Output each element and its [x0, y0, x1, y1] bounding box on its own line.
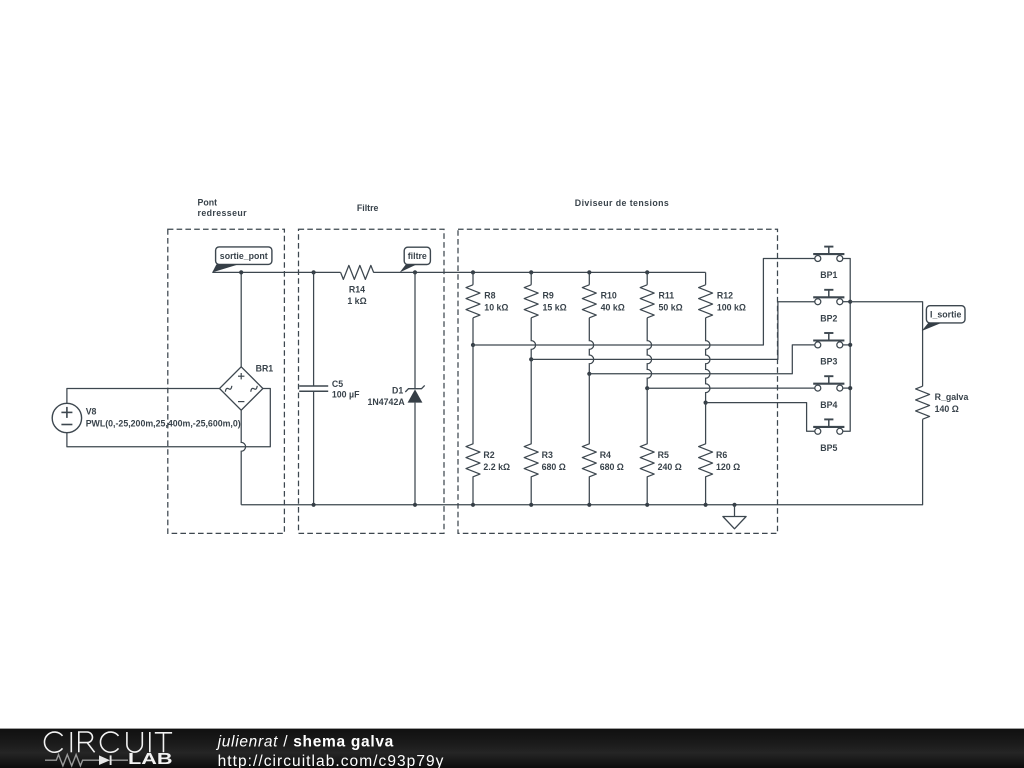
wire R8 top lead — [472, 272, 474, 284]
svg-text:julienrat / shema galva: julienrat / shema galva — [216, 733, 394, 750]
svg-text:R8: R8 — [484, 291, 495, 301]
node bottom rail at col5 — [704, 503, 708, 507]
svg-text:100 µF: 100 µF — [332, 390, 360, 400]
node bottom rail at C5 — [312, 503, 316, 507]
wire R8 bottom lead — [472, 318, 474, 345]
voltage source V8 — [52, 403, 81, 432]
flag I_sortie — [922, 306, 965, 331]
svg-text:240 Ω: 240 Ω — [658, 462, 682, 472]
node bottom rail at col1 — [471, 503, 475, 507]
wire BP2 right stub — [843, 301, 850, 303]
wire R10 top lead — [588, 272, 590, 284]
node divider tap 3 — [587, 372, 591, 376]
label R2 value — [483, 450, 510, 472]
node divider tap 2 — [529, 357, 533, 361]
flag filtre — [400, 247, 431, 272]
wire R14 to divider top rail — [374, 271, 706, 273]
svg-text:R2: R2 — [483, 450, 494, 460]
node top rail col 1 — [471, 270, 475, 274]
svg-text:C5: C5 — [332, 379, 343, 389]
svg-text:120 Ω: 120 Ω — [716, 462, 740, 472]
label V8 value — [86, 407, 241, 429]
wire BP4 right stub — [843, 387, 850, 389]
resistor R14 — [341, 265, 374, 279]
resistor R9 — [524, 285, 538, 318]
resistor R4 — [582, 374, 596, 505]
pushbutton BP1 — [813, 247, 844, 262]
wire R11 bottom lead — [647, 318, 651, 388]
wire bus to R_galva (I_sortie net) — [850, 302, 922, 387]
svg-text:R6: R6 — [716, 450, 727, 460]
node bus at BP4 — [848, 386, 852, 390]
pushbutton BP2 — [813, 290, 844, 305]
svg-text:10 kΩ: 10 kΩ — [484, 302, 508, 312]
diode D1 (zener) — [405, 272, 424, 504]
svg-text:redresseur: redresseur — [198, 208, 248, 218]
node at C5 top — [312, 270, 316, 274]
wire tap3 to BP3 — [589, 345, 815, 374]
svg-text:BP2: BP2 — [820, 313, 837, 323]
footer bar — [0, 729, 1024, 768]
svg-text:BR1: BR1 — [256, 364, 274, 374]
wire BR1 bottom corner to bottom rail (hop over V8 return) — [241, 410, 245, 505]
pushbutton BP3 — [813, 333, 844, 348]
resistor R12 — [699, 285, 713, 318]
node bottom rail at D1 — [413, 503, 417, 507]
node bus at BP3 — [848, 343, 852, 347]
pushbutton BP4 — [813, 376, 844, 391]
wire bottom rail (ground net) — [241, 419, 922, 505]
wire tap5 to BP5 — [706, 403, 815, 432]
svg-text:100 kΩ: 100 kΩ — [717, 302, 746, 312]
svg-text:50 kΩ: 50 kΩ — [659, 302, 683, 312]
wire tap2 to BP2 — [531, 302, 815, 360]
dashed box Filtre — [299, 229, 445, 533]
node bus at BP2 — [848, 300, 852, 304]
dashed box Pont redresseur — [168, 229, 285, 533]
label R14 value — [347, 285, 366, 306]
svg-text:BP4: BP4 — [820, 400, 837, 410]
svg-text:R12: R12 — [717, 291, 733, 301]
wire V8 bottom — [67, 389, 270, 447]
node bottom rail at col2 — [529, 503, 533, 507]
node top rail col 3 — [587, 270, 591, 274]
node bottom rail at col3 — [587, 503, 591, 507]
node divider tap 1 — [471, 343, 475, 347]
wire button output bus — [843, 259, 850, 432]
node divider tap 4 — [645, 386, 649, 390]
svg-text:BP5: BP5 — [820, 443, 837, 453]
svg-text:sortie_pont: sortie_pont — [220, 251, 268, 261]
label R3 value — [542, 450, 566, 472]
svg-text:Pont: Pont — [198, 197, 218, 207]
label R8 value — [484, 291, 508, 313]
svg-text:Filtre: Filtre — [357, 203, 379, 213]
svg-text:filtre: filtre — [408, 251, 427, 261]
pushbutton BP5 — [813, 419, 844, 434]
svg-text:PWL(0,-25,200m,25,400m,-25,600: PWL(0,-25,200m,25,400m,-25,600m,0) — [86, 419, 241, 429]
svg-text:R3: R3 — [542, 450, 553, 460]
wire R12 top lead — [705, 272, 707, 284]
dashed box Diviseur de tensions — [458, 229, 778, 533]
svg-text:Diviseur de tensions: Diviseur de tensions — [575, 198, 669, 208]
svg-text:15 kΩ: 15 kΩ — [543, 302, 567, 312]
svg-text:R_galva: R_galva — [935, 392, 969, 402]
svg-text:D1: D1 — [392, 386, 403, 396]
resistor R6 — [699, 403, 713, 505]
wire R9 bottom lead — [531, 318, 535, 360]
svg-text:http://circuitlab.com/c93p79y: http://circuitlab.com/c93p79y — [218, 753, 445, 768]
label C5 value — [332, 379, 360, 399]
wire R9 top lead — [530, 272, 532, 284]
svg-text:R10: R10 — [601, 291, 617, 301]
label R6 value — [716, 450, 740, 472]
svg-text:R14: R14 — [349, 285, 365, 295]
ground — [723, 503, 746, 529]
svg-text:R5: R5 — [658, 450, 669, 460]
svg-text:140 Ω: 140 Ω — [935, 404, 959, 414]
resistor R11 — [640, 285, 654, 318]
node top rail col 2 — [529, 270, 533, 274]
wire R10 bottom lead — [589, 318, 593, 374]
svg-text:1N4742A: 1N4742A — [368, 397, 406, 407]
wire BP3 right stub — [843, 344, 850, 346]
bridge rectifier BR1 — [220, 367, 263, 410]
wire R12 bottom lead — [706, 318, 710, 403]
label R_galva value — [935, 392, 969, 414]
resistor R5 — [640, 388, 654, 505]
svg-text:R9: R9 — [543, 291, 554, 301]
svg-text:680 Ω: 680 Ω — [600, 462, 624, 472]
resistor R2 — [466, 345, 480, 505]
wire tap1 to BP1 — [473, 259, 815, 346]
label R11 value — [659, 291, 683, 313]
wire V8 top to BR1 left — [67, 389, 220, 404]
node filtre at D1 top — [413, 270, 417, 274]
resistor R_galva — [916, 386, 930, 419]
svg-text:680 Ω: 680 Ω — [542, 462, 566, 472]
node sortie_pont at BR1 — [239, 270, 243, 274]
svg-text:R4: R4 — [600, 450, 611, 460]
label Pont redresseur — [198, 197, 248, 218]
label R4 value — [600, 450, 624, 472]
wire BR1 top corner to rail — [240, 272, 242, 366]
wire top rail (sortie_pont net) — [212, 271, 340, 273]
label R9 value — [543, 291, 567, 313]
label D1 value — [368, 386, 406, 407]
svg-text:R11: R11 — [659, 291, 675, 301]
svg-text:LAB: LAB — [128, 751, 173, 768]
flag sortie_pont — [212, 247, 272, 273]
svg-text:V8: V8 — [86, 407, 97, 417]
svg-text:1 kΩ: 1 kΩ — [347, 296, 366, 306]
svg-text:BP1: BP1 — [820, 270, 837, 280]
label R10 value — [601, 291, 625, 313]
svg-text:2.2 kΩ: 2.2 kΩ — [483, 462, 510, 472]
node divider tap 5 — [704, 401, 708, 405]
label R12 value — [717, 291, 746, 313]
node top rail col 4 — [645, 270, 649, 274]
CircuitLab logo — [44, 732, 172, 752]
svg-text:BP3: BP3 — [820, 357, 837, 367]
svg-text:I_sortie: I_sortie — [930, 309, 961, 319]
wire tap4 to BP4 — [647, 387, 815, 389]
svg-text:40 kΩ: 40 kΩ — [601, 302, 625, 312]
capacitor C5 — [299, 272, 328, 504]
node bottom rail at col4 — [645, 503, 649, 507]
resistor R3 — [524, 359, 538, 504]
resistor R8 — [466, 285, 480, 318]
label R5 value — [658, 450, 682, 472]
resistor R10 — [582, 285, 596, 318]
wire R11 top lead — [646, 272, 648, 284]
